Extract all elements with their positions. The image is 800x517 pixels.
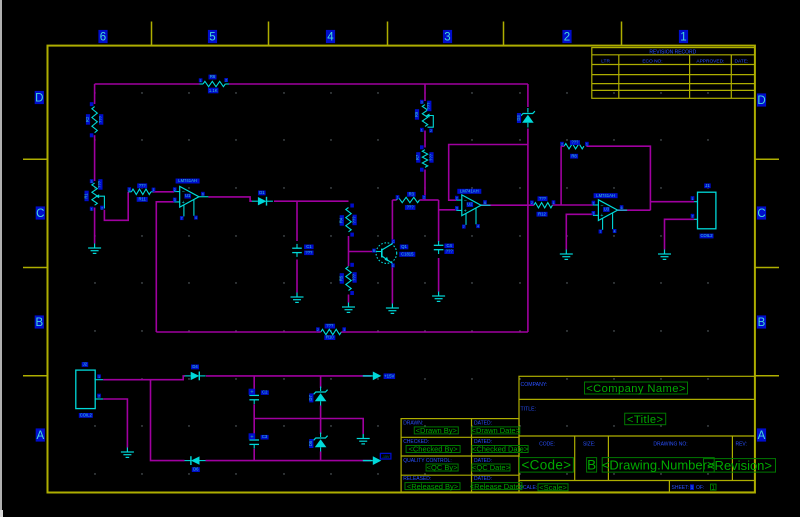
svg-text:+15V: +15V [384, 374, 394, 379]
zone tick left 1 [23, 158, 48, 160]
svg-text:2: 2 [564, 31, 570, 43]
svg-text:<QC Date>: <QC Date> [472, 463, 511, 472]
svg-text:7: 7 [181, 217, 183, 221]
wire R8 tap [560, 146, 562, 205]
svg-text:C2: C2 [262, 390, 268, 395]
svg-text:SIZE:: SIZE: [583, 442, 596, 448]
zone letter D right [757, 93, 766, 106]
svg-text:???: ??? [428, 153, 433, 161]
capacitor C1 [292, 247, 302, 249]
ground U3 plus [560, 250, 573, 260]
ground coil J1 [658, 250, 671, 260]
svg-text:3: 3 [592, 212, 594, 216]
svg-text:B: B [758, 317, 766, 329]
svg-text:2: 2 [101, 206, 103, 210]
zone letter B right [757, 315, 766, 328]
power symbol +15V [363, 375, 373, 377]
svg-text:3: 3 [456, 207, 458, 211]
svg-text:U2: U2 [467, 202, 473, 207]
svg-text:R12: R12 [538, 211, 546, 216]
size value [587, 458, 597, 473]
svg-text:R6: R6 [210, 74, 216, 79]
code value [519, 458, 573, 473]
svg-text:7: 7 [463, 225, 465, 229]
svg-text:<Release Date>: <Release Date> [470, 482, 525, 491]
svg-text:R9: R9 [414, 111, 419, 117]
sheet border frame [48, 46, 755, 493]
svg-text:1: 1 [343, 328, 345, 332]
wire zener to feedback tee [527, 129, 529, 333]
wire C2 branch [253, 376, 255, 391]
resistor R11 [131, 189, 151, 194]
released by value [405, 483, 460, 490]
svg-text:C4: C4 [447, 243, 453, 248]
svg-text:B: B [35, 317, 43, 329]
zone tick right 2 [755, 267, 779, 269]
svg-text:???: ??? [139, 183, 147, 188]
svg-text:1: 1 [692, 197, 694, 201]
wire R8 to output node [586, 146, 650, 210]
sheet number [690, 484, 694, 490]
svg-text:???: ??? [446, 249, 454, 254]
svg-text:6: 6 [621, 206, 623, 210]
svg-text:<Checked By>: <Checked By> [408, 445, 458, 454]
scale value [538, 484, 568, 491]
wire R5 to ground [348, 295, 350, 303]
svg-text:2: 2 [531, 201, 533, 205]
potentiometer R9 [422, 105, 427, 127]
ground C4 [432, 292, 445, 302]
svg-text:6: 6 [100, 31, 106, 43]
wire minus branch down [151, 380, 185, 461]
svg-text:4: 4 [327, 31, 334, 43]
svg-text:<Drawn By>: <Drawn By> [416, 426, 458, 435]
wire U2 output to R12 [481, 204, 534, 206]
zone number 6 [98, 30, 107, 43]
svg-text:1: 1 [153, 188, 155, 192]
svg-text:LM741AH: LM741AH [596, 193, 615, 198]
svg-text:REVISION RECORD: REVISION RECORD [649, 49, 696, 55]
svg-text:???: ??? [97, 180, 102, 188]
svg-text:C: C [757, 208, 765, 220]
wire zener lower branch [320, 452, 322, 461]
ground R5 [342, 303, 355, 313]
svg-text:1.1K: 1.1K [209, 88, 218, 93]
svg-text:1: 1 [200, 79, 202, 83]
svg-text:DRAWING NO:: DRAWING NO: [653, 442, 687, 448]
svg-text:3: 3 [91, 180, 93, 184]
svg-text:???: ??? [407, 205, 415, 210]
svg-text:REV:: REV: [735, 442, 746, 448]
svg-text:J2: J2 [83, 362, 88, 367]
svg-text:3: 3 [174, 198, 176, 202]
svg-text:LM741AH: LM741AH [178, 178, 197, 183]
wire center tap [254, 419, 363, 435]
wire feedback horizontal [449, 145, 528, 201]
svg-text:DATE:: DATE: [735, 59, 749, 65]
zone letter A right [757, 428, 766, 441]
svg-text:2: 2 [692, 214, 694, 218]
svg-text:4: 4 [477, 225, 479, 229]
svg-text:LTR: LTR [601, 59, 610, 65]
wire zener upper branch [320, 376, 322, 388]
wire D6 to -15V [206, 460, 372, 462]
zone letter B left [35, 315, 44, 328]
wire R11 to U1 minus [153, 191, 174, 193]
svg-text:D: D [35, 92, 43, 104]
svg-text:ECO NO:: ECO NO: [642, 59, 662, 65]
wire R1 wiper to R11 [104, 192, 128, 221]
wire U1 plus feed [156, 202, 174, 332]
svg-text:D3: D3 [516, 115, 521, 121]
svg-text:1: 1 [680, 31, 686, 43]
zone tick top 1 [151, 22, 153, 46]
wire U1 output to D1 [208, 197, 252, 201]
diode D6 [191, 456, 200, 464]
zone number 3 [443, 30, 452, 43]
resistor R7 [422, 150, 427, 168]
wire left rail upper [94, 84, 96, 104]
svg-text:C3: C3 [262, 434, 268, 439]
wire base junction to Q1 [349, 251, 374, 253]
zone tick top 4 [503, 22, 505, 46]
zone tick left 3 [23, 375, 48, 377]
left signoff block outline [401, 419, 519, 492]
svg-text:3: 3 [444, 31, 450, 43]
svg-text:<Scale>: <Scale> [539, 483, 567, 492]
svg-text:6: 6 [202, 192, 204, 196]
revision record table [592, 48, 755, 99]
zone tick top 3 [387, 22, 389, 46]
wire C3 branch [253, 419, 255, 436]
resistor R3 [397, 197, 420, 202]
drawn date value [472, 427, 520, 434]
zone letter D left [35, 91, 44, 104]
svg-text:J1: J1 [705, 183, 710, 188]
svg-text:R8: R8 [571, 153, 577, 158]
wire coil pin1 to D4 [103, 376, 185, 380]
svg-text:U1: U1 [185, 193, 191, 198]
svg-text:2: 2 [423, 196, 425, 200]
svg-text:<Company Name>: <Company Name> [586, 383, 686, 395]
svg-text:<Title>: <Title> [627, 414, 664, 426]
potentiometer R1 [92, 183, 97, 205]
svg-text:-15V: -15V [382, 455, 390, 459]
op-amp U3 LM741AH [594, 193, 618, 198]
wire R12 to U3 minus [552, 204, 593, 206]
wire zener drop [527, 84, 529, 107]
window edge line [0, 0, 2, 517]
svg-text:R11: R11 [139, 197, 147, 202]
drawn by value [414, 427, 458, 434]
svg-text:1: 1 [586, 142, 588, 146]
wire coil pin 2 to ground [665, 219, 695, 249]
release date value [472, 483, 522, 490]
svg-text:4: 4 [614, 230, 616, 234]
wire bottom loop [156, 331, 316, 333]
title block outline [519, 376, 755, 492]
company name value [585, 382, 688, 394]
wire D1 to R4 top [274, 200, 349, 202]
wire R3 right junction [425, 199, 439, 201]
svg-text:<QC By>: <QC By> [427, 463, 458, 472]
checked date value [472, 446, 528, 453]
resistor R4 [346, 208, 351, 232]
wire C4 node to U2 plus [438, 200, 440, 242]
svg-text:<Code>: <Code> [521, 458, 571, 473]
transistor Q1 C1815 [376, 243, 397, 264]
wire Q1 emitter to ground [391, 265, 393, 304]
svg-text:3: 3 [421, 100, 423, 104]
wire U3 output [618, 209, 651, 211]
svg-text:R3: R3 [409, 191, 415, 196]
svg-text:Q1: Q1 [401, 244, 407, 249]
svg-text:+: + [250, 390, 253, 396]
svg-text:D5: D5 [308, 440, 313, 446]
svg-text:2: 2 [128, 188, 130, 192]
svg-text:B: B [587, 458, 596, 473]
zone number 4 [326, 30, 335, 43]
ground center tap [357, 434, 370, 444]
svg-text:???: ??? [539, 196, 547, 201]
power symbol -15V [363, 460, 373, 462]
svg-text:<Released By>: <Released By> [407, 482, 459, 491]
svg-text:A: A [758, 430, 766, 442]
svg-text:D1: D1 [259, 190, 265, 195]
svg-text:???: ??? [326, 323, 334, 328]
wire left rail R1 to ground [94, 208, 96, 244]
zone tick left 2 [23, 267, 48, 269]
svg-text:2: 2 [98, 394, 100, 398]
svg-text:1: 1 [421, 128, 423, 132]
svg-text:R2: R2 [85, 116, 90, 122]
resistor R6 [203, 81, 225, 86]
svg-text:1: 1 [397, 196, 399, 200]
resistor R12 [534, 203, 553, 208]
zone tick top 2 [268, 22, 270, 46]
svg-text:???: ??? [98, 115, 103, 123]
zone tick right 3 [755, 375, 779, 377]
qc date value [472, 464, 510, 471]
svg-text:5: 5 [209, 31, 215, 43]
svg-text:6: 6 [484, 201, 486, 205]
svg-text:???: ??? [351, 216, 356, 224]
zone letter C right [757, 206, 766, 219]
svg-text:7: 7 [599, 230, 601, 234]
capacitor C3 [249, 439, 259, 441]
svg-text:C1815: C1815 [401, 252, 414, 257]
svg-text:2: 2 [592, 201, 594, 205]
svg-text:R4: R4 [339, 217, 344, 223]
resistor R10 [321, 329, 342, 334]
ground left rail [88, 244, 101, 254]
svg-text:<Revision>: <Revision> [707, 458, 772, 473]
svg-text:2: 2 [456, 196, 458, 200]
svg-text:D7: D7 [308, 395, 313, 401]
wire U3 plus to ground [566, 214, 593, 249]
svg-text:<Checked Date>: <Checked Date> [472, 445, 529, 454]
svg-text:D6: D6 [193, 467, 199, 472]
op-amp U2 LM741AH [457, 189, 481, 194]
svg-text:OF:: OF: [696, 485, 704, 491]
svg-text:2: 2 [225, 79, 227, 83]
svg-text:COIL2: COIL2 [80, 413, 93, 418]
svg-text:<Drawn Date>: <Drawn Date> [472, 426, 521, 435]
svg-text:R1: R1 [83, 193, 88, 199]
zone letter C left [36, 206, 45, 219]
zone number 2 [562, 30, 571, 43]
zone tick top 5 [621, 22, 623, 46]
wire coil pin2 to ground [103, 399, 127, 448]
resistor R8 [564, 144, 584, 149]
zone number 5 [208, 30, 217, 43]
svg-text:???: ??? [351, 273, 356, 281]
resistor R2 [92, 107, 97, 133]
drawing number value [602, 458, 714, 473]
zone tick right 1 [755, 158, 779, 160]
svg-text:D4: D4 [192, 364, 198, 369]
ground Q1 [386, 304, 399, 314]
svg-text:???: ??? [571, 140, 579, 145]
wire to coil pin 1 [650, 201, 694, 203]
svg-text:1: 1 [98, 375, 100, 379]
zone number 1 [679, 30, 688, 43]
wire left rail R2 to R1 [94, 135, 96, 181]
wire R4 to base junction [348, 236, 350, 266]
svg-text:U3: U3 [604, 207, 610, 212]
svg-text:<Drawing.Number>: <Drawing.Number> [602, 458, 715, 473]
wire R7 to R3 junction [424, 170, 426, 201]
revision value [704, 459, 776, 473]
checked by value [406, 446, 460, 453]
svg-text:COMPANY:: COMPANY: [521, 382, 548, 388]
title value [625, 413, 666, 425]
zener diode D7 [314, 390, 328, 395]
svg-text:2: 2 [174, 188, 176, 192]
svg-text:R10: R10 [326, 335, 334, 340]
wire pot chain top [424, 84, 426, 101]
wire R9 to R7 [424, 131, 426, 148]
capacitor C2 [249, 394, 259, 396]
qc by value [426, 464, 458, 471]
svg-text:CODE:: CODE: [539, 442, 555, 448]
svg-text:2: 2 [317, 328, 319, 332]
diode D1 [258, 197, 267, 205]
svg-text:???: ??? [426, 102, 431, 110]
svg-text:1: 1 [91, 207, 93, 211]
svg-text:TITLE:: TITLE: [521, 407, 537, 413]
svg-text:A: A [36, 430, 44, 442]
svg-text:+: + [250, 434, 253, 440]
svg-text:C1: C1 [306, 244, 312, 249]
svg-text:R7: R7 [415, 154, 420, 160]
wire zener middle [320, 406, 322, 435]
ground coil J2 [121, 448, 134, 458]
op-amp U1 LM741AH [176, 179, 200, 184]
svg-text:2: 2 [430, 129, 432, 133]
svg-text:C: C [36, 208, 44, 220]
svg-text:COIL2: COIL2 [700, 233, 713, 238]
capacitor C4 [434, 244, 444, 246]
wire top rail [95, 83, 200, 85]
zone letter A left [36, 428, 45, 441]
wire D4 to +15V [206, 375, 371, 377]
diode D4 [191, 372, 200, 380]
wire junction to C1 [296, 201, 298, 241]
svg-text:2: 2 [561, 142, 563, 146]
zener diode D5 [314, 436, 328, 441]
svg-text:R5: R5 [339, 275, 344, 281]
wire C1 to ground [296, 260, 298, 293]
grid dots [94, 92, 708, 474]
svg-text:D: D [757, 95, 765, 107]
sheet total [711, 484, 717, 490]
ground C1 [291, 293, 304, 303]
resistor R5 [346, 267, 351, 291]
svg-text:LM741AH: LM741AH [460, 189, 479, 194]
svg-text:4: 4 [195, 216, 197, 220]
svg-text:APPROVED:: APPROVED: [696, 59, 724, 65]
wire C4 to ground [438, 258, 440, 292]
svg-text:SHEET:: SHEET: [672, 485, 690, 491]
coil J1 [698, 192, 716, 229]
wire R3 left to Q1 collector [391, 200, 393, 242]
coil J2 [76, 370, 95, 409]
svg-text:???: ??? [305, 250, 313, 255]
zener diode D3 [521, 111, 535, 116]
svg-text:1: 1 [553, 201, 555, 205]
